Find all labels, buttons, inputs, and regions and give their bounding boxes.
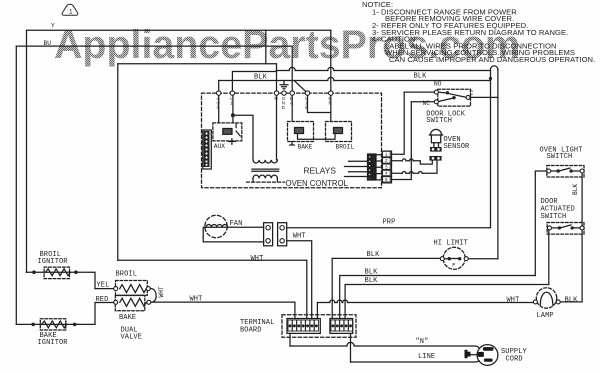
svg-text:BAKE: BAKE — [298, 144, 313, 151]
svg-text:VALVE: VALVE — [121, 333, 143, 341]
svg-text:3: 3 — [385, 164, 388, 169]
svg-text:BU: BU — [44, 40, 52, 47]
svg-text:N: N — [274, 96, 277, 101]
svg-text:1: 1 — [385, 152, 388, 157]
svg-text:OVEN CONTROL: OVEN CONTROL — [286, 179, 349, 188]
svg-text:"N": "N" — [416, 338, 429, 346]
svg-text:IGNITOR: IGNITOR — [38, 258, 69, 266]
svg-text:B: B — [305, 105, 308, 110]
svg-text:1: 1 — [69, 9, 73, 16]
svg-text:BLK: BLK — [565, 297, 579, 305]
svg-text:PRP: PRP — [383, 219, 396, 227]
svg-text:2: 2 — [385, 158, 388, 163]
svg-text:BOARD: BOARD — [240, 327, 262, 335]
svg-text:LAMP: LAMP — [537, 312, 554, 320]
svg-text:Y: Y — [51, 22, 55, 29]
svg-text:WHT: WHT — [507, 297, 520, 305]
svg-text:RELAYS: RELAYS — [304, 166, 337, 176]
svg-text:NO: NO — [434, 81, 442, 88]
svg-text:BLK: BLK — [572, 184, 579, 195]
svg-text:HI LIMIT: HI LIMIT — [434, 240, 468, 248]
svg-text:CORD: CORD — [506, 355, 523, 363]
svg-text:SWITCH: SWITCH — [547, 153, 573, 161]
svg-text:YEL: YEL — [97, 282, 110, 290]
svg-text:WHT: WHT — [158, 286, 165, 297]
svg-text:4: 4 — [385, 171, 388, 176]
svg-text:C: C — [470, 90, 474, 97]
svg-text:BLK: BLK — [367, 251, 381, 259]
svg-text:1: 1 — [230, 100, 233, 105]
svg-text:BLK: BLK — [254, 74, 268, 82]
svg-text:BROIL: BROIL — [116, 271, 138, 279]
svg-text:BLK: BLK — [414, 73, 428, 81]
svg-text:BAKE: BAKE — [119, 314, 136, 322]
svg-text:CAN CAUSE IMPROPER AND DANGERO: CAN CAUSE IMPROPER AND DANGEROUS OPERATI… — [389, 55, 595, 64]
svg-text:WHT: WHT — [293, 233, 306, 241]
svg-text:BLK: BLK — [365, 268, 379, 276]
svg-text:NC: NC — [423, 100, 431, 107]
svg-text:SENSOR: SENSOR — [444, 143, 471, 151]
svg-text:BLK: BLK — [365, 277, 379, 285]
svg-text:WHT: WHT — [190, 296, 203, 304]
svg-text:FAN: FAN — [230, 220, 243, 228]
svg-text:BROIL: BROIL — [336, 144, 355, 151]
svg-text:WHT: WHT — [251, 255, 264, 263]
svg-text:SWITCH: SWITCH — [426, 117, 452, 125]
svg-text:AUX: AUX — [214, 143, 225, 150]
svg-text:X: X — [217, 105, 220, 110]
svg-text:LINE: LINE — [418, 353, 435, 361]
svg-text:SWITCH: SWITCH — [541, 213, 567, 221]
svg-text:IGNITOR: IGNITOR — [38, 339, 69, 347]
svg-text:RED: RED — [96, 296, 109, 304]
svg-text:P: P — [452, 262, 455, 268]
svg-text:5: 5 — [385, 177, 388, 182]
